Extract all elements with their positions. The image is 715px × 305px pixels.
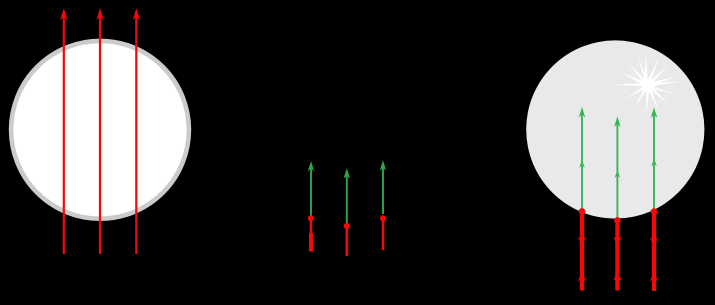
red field arrow L2: [96, 8, 103, 254]
middle column 2: red arrow with round dot: [344, 223, 350, 256]
right red arrow 2: [613, 217, 621, 291]
right sphere (light gray): [526, 40, 704, 218]
middle column 1: green up arrow: [308, 161, 315, 218]
red field arrow L1: [60, 8, 67, 254]
middle column 3: green up arrow: [380, 160, 387, 214]
right red arrow 1: [578, 208, 586, 290]
right red arrow 3: [650, 208, 658, 291]
right green arrow 3: [651, 108, 658, 211]
right green arrow 2: [614, 117, 621, 219]
red field arrow L3: [133, 8, 140, 254]
middle column 1: red arrow below: [308, 215, 314, 251]
middle column 2: green up arrow: [344, 168, 351, 223]
middle column 3: red arrow with round dot: [380, 215, 386, 250]
starburst flash: [613, 53, 681, 115]
right green arrow 1: [579, 107, 586, 212]
left sphere (white circle, gray rim): [11, 41, 189, 219]
